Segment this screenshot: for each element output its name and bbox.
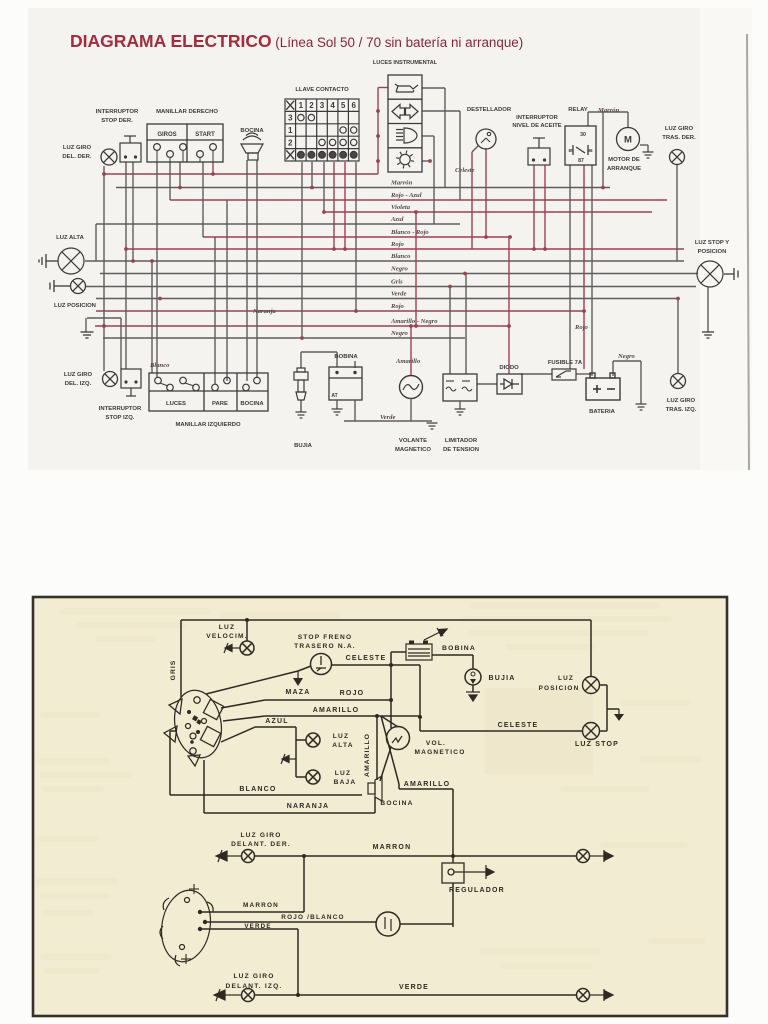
svg-text:Celeste: Celeste (455, 167, 474, 174)
svg-text:BATERIA: BATERIA (589, 409, 615, 415)
connector alta/baja (281, 754, 296, 764)
svg-text:Rojo: Rojo (390, 303, 405, 310)
wire (433, 136, 435, 224)
node (102, 172, 106, 176)
wire (400, 923, 453, 925)
page scan right edge (747, 34, 749, 470)
node (507, 324, 511, 328)
svg-text:DEL. IZQ.: DEL. IZQ. (65, 381, 92, 387)
wire (590, 620, 592, 677)
wire (255, 726, 296, 728)
interruptor STOP IZQ. (121, 369, 141, 396)
svg-text:LUZ GIRO: LUZ GIRO (665, 126, 694, 132)
svg-text:INTERRUPTOR: INTERRUPTOR (96, 109, 139, 115)
svg-text:GIROS: GIROS (157, 132, 176, 138)
svg-text:BOCINA: BOCINA (380, 800, 413, 807)
wire (85, 318, 87, 332)
wire (354, 400, 356, 421)
wire (226, 200, 228, 381)
svg-text:NIVEL DE ACEITE: NIVEL DE ACEITE (512, 123, 561, 129)
wire (204, 812, 375, 814)
node (102, 324, 106, 328)
node (354, 309, 358, 313)
wire to velocim lamp (246, 620, 248, 641)
icon turn arrows (392, 105, 418, 119)
icon oil (395, 84, 418, 92)
svg-text:POSICION: POSICION (698, 249, 727, 255)
svg-text:ROJO: ROJO (340, 690, 365, 697)
wire (600, 684, 608, 686)
svg-text:LUZ ALTA: LUZ ALTA (56, 235, 84, 241)
connector MAZA (297, 671, 299, 678)
svg-text:LUCES: LUCES (166, 401, 186, 407)
wire Azul (96, 223, 460, 225)
node (376, 134, 380, 138)
svg-text:GRIS: GRIS (170, 660, 177, 681)
wire gris down to switch (180, 620, 182, 697)
svg-text:DELANT. DER.: DELANT. DER. (231, 841, 291, 848)
node (150, 259, 154, 263)
svg-text:85: 85 (568, 148, 574, 153)
lamp luz stop y posicion (697, 261, 723, 287)
svg-text:BOBINA: BOBINA (334, 354, 358, 360)
node (414, 210, 418, 214)
svg-text:FUSIBLE 7A: FUSIBLE 7A (548, 360, 583, 366)
svg-text:AMARILLO: AMARILLO (404, 781, 451, 788)
svg-text:CELESTE: CELESTE (498, 722, 539, 729)
ground bobina (332, 409, 343, 415)
wire (607, 708, 619, 710)
lamp luz posicion bottom (583, 677, 600, 694)
svg-text:LUZ GIRO: LUZ GIRO (240, 832, 281, 839)
svg-text:Gris: Gris (391, 279, 403, 286)
svg-text:2: 2 (288, 138, 293, 147)
wire (521, 373, 552, 375)
wire (422, 87, 445, 89)
svg-text:Azul: Azul (390, 216, 404, 223)
svg-text:AMARILLO: AMARILLO (364, 733, 371, 777)
wire (415, 212, 417, 326)
lamp trasera izq (577, 989, 590, 1002)
svg-text:Negro: Negro (617, 353, 636, 360)
svg-text:LUZ POSICION: LUZ POSICION (54, 303, 96, 309)
svg-text:ALTA: ALTA (332, 742, 353, 749)
node (158, 297, 162, 301)
svg-text:1: 1 (299, 101, 304, 110)
wire (221, 727, 255, 742)
wire (533, 165, 535, 249)
svg-text:VERDE: VERDE (399, 984, 429, 991)
wire (344, 162, 346, 249)
wire Verde (344, 420, 432, 422)
svg-text:BOBINA: BOBINA (442, 645, 476, 652)
wire Blanco - Rojo (203, 236, 510, 238)
wire Verde (96, 298, 678, 300)
wire Violeta (324, 211, 652, 213)
svg-text:NARANJA: NARANJA (287, 803, 330, 810)
svg-text:LUZ STOP Y: LUZ STOP Y (695, 240, 729, 246)
svg-text:DEL. DER.: DEL. DER. (62, 154, 91, 160)
ground bateria (636, 404, 647, 410)
svg-text:REGULADOR: REGULADOR (449, 887, 505, 894)
wire (206, 671, 298, 694)
wire (583, 165, 585, 369)
wire Marrón (116, 187, 610, 189)
ground bujia (296, 412, 307, 418)
wire (600, 730, 608, 732)
wire posicion-stop (606, 685, 608, 731)
wire (170, 794, 362, 796)
svg-text:LUZ STOP: LUZ STOP (575, 741, 619, 748)
svg-text:Rojo: Rojo (390, 241, 405, 248)
svg-text:DE TENSION: DE TENSION (443, 447, 479, 453)
wire Gris (85, 286, 696, 288)
lamp luz baja (306, 770, 320, 784)
wire (323, 162, 325, 212)
node (582, 309, 586, 313)
svg-text:AZUL: AZUL (265, 718, 288, 725)
wire (212, 162, 214, 174)
wire (255, 855, 577, 857)
wire (332, 664, 392, 666)
svg-text:Blanco: Blanco (149, 362, 170, 369)
wire (223, 716, 265, 721)
svg-text:LUZ GIRO: LUZ GIRO (63, 145, 92, 151)
svg-text:Blanco: Blanco (390, 253, 411, 260)
wire (265, 715, 420, 717)
svg-text:LUZ GIRO: LUZ GIRO (64, 372, 93, 378)
wire Blanco (85, 260, 684, 262)
wire (202, 928, 298, 930)
wire (376, 716, 378, 780)
connector arrow right (verde) (590, 989, 614, 1001)
wire (410, 326, 412, 375)
svg-text:BAJA: BAJA (334, 779, 357, 786)
ground motor (643, 152, 654, 158)
svg-text:Naranja: Naranja (252, 308, 276, 315)
node (409, 324, 413, 328)
svg-text:M: M (624, 135, 632, 146)
wire (391, 664, 420, 666)
wire (246, 160, 248, 381)
connector velocim (224, 643, 240, 653)
wire (179, 162, 181, 188)
svg-text:5: 5 (341, 101, 346, 110)
wire celeste down (419, 665, 421, 731)
wire Rojo - Azul (170, 199, 667, 201)
svg-text:TRASERO N.A.: TRASERO N.A. (294, 643, 356, 650)
node (376, 109, 380, 113)
lamp luz giro tras der (670, 150, 685, 165)
wire Rojo (126, 248, 684, 250)
node (310, 186, 314, 190)
svg-text:TRAS. DER.: TRAS. DER. (662, 135, 696, 141)
wire (202, 911, 304, 913)
svg-text:TRAS. IZQ.: TRAS. IZQ. (666, 407, 697, 413)
connector bobina arrow (424, 628, 447, 640)
svg-text:INTERRUPTOR: INTERRUPTOR (516, 115, 559, 121)
wire (169, 162, 171, 200)
node (463, 272, 467, 276)
lamp luz giro del der (101, 149, 117, 165)
wire Marron relay (587, 112, 589, 126)
node (322, 210, 326, 214)
node (543, 247, 547, 251)
svg-text:LUZ: LUZ (219, 624, 235, 631)
wire azul down (295, 727, 297, 777)
wire (95, 224, 97, 261)
connector luz alta (39, 254, 58, 268)
wire (202, 162, 204, 237)
bocina (horn, bottom) (368, 776, 382, 801)
node (332, 247, 336, 251)
svg-text:LIMITADOR: LIMITADOR (445, 438, 478, 444)
wire (214, 237, 216, 384)
svg-text:MAGNETICO: MAGNETICO (395, 447, 431, 453)
connector arrow left (der) (216, 850, 241, 862)
ground bujia (bottom) (466, 692, 480, 701)
wire (336, 400, 338, 409)
svg-text:LUZ: LUZ (335, 770, 351, 777)
wire (647, 145, 649, 152)
svg-text:PARE: PARE (212, 401, 228, 407)
wire naranja to bocina (374, 797, 376, 813)
lamp luz stop bottom (583, 723, 600, 740)
svg-text:MARRON: MARRON (243, 902, 279, 909)
wire (569, 165, 571, 369)
svg-text:30: 30 (580, 132, 586, 138)
wire (471, 152, 473, 249)
motor de arranque (617, 128, 640, 151)
node (343, 247, 347, 251)
wire (156, 162, 158, 378)
wire (472, 655, 474, 669)
svg-text:Rojo: Rojo (574, 324, 589, 331)
wire (381, 716, 398, 727)
flywheel magneto (156, 886, 216, 966)
wire Negro (100, 273, 698, 275)
bobina (bottom) (406, 644, 432, 660)
svg-text:87: 87 (578, 158, 584, 164)
node (428, 159, 432, 163)
wire (422, 110, 460, 112)
wire (422, 135, 434, 137)
wire (300, 352, 302, 368)
svg-text:LUCES INSTRUMENTAL: LUCES INSTRUMENTAL (373, 60, 438, 66)
ground left (81, 332, 94, 338)
bujia (spark plug) (294, 368, 308, 412)
svg-text:BLANCO: BLANCO (239, 786, 276, 793)
wire marron to bus (602, 112, 604, 188)
wire CELESTE lower (420, 730, 582, 732)
svg-text:ROJO /BLANCO: ROJO /BLANCO (281, 914, 344, 921)
node (300, 336, 304, 340)
wire (298, 666, 311, 671)
wire (380, 747, 391, 781)
icon headlight (396, 128, 417, 143)
wire (640, 144, 648, 146)
wire (391, 651, 406, 653)
wire Rojo (96, 310, 584, 312)
svg-text:STOP FRENO: STOP FRENO (298, 634, 353, 641)
svg-text:MOTOR DE: MOTOR DE (608, 157, 640, 163)
svg-text:Violeta: Violeta (391, 204, 411, 211)
wire (459, 111, 461, 200)
wire (422, 160, 430, 162)
node (131, 259, 135, 263)
wire bujia ground (472, 685, 474, 692)
svg-text:Amarillo: Amarillo (395, 358, 421, 365)
svg-text:LUZ: LUZ (558, 675, 574, 682)
svg-text:VOLANTE: VOLANTE (399, 438, 427, 444)
svg-text:LLAVE CONTACTO: LLAVE CONTACTO (295, 87, 349, 93)
node (178, 186, 182, 190)
wire (333, 162, 335, 249)
wire (169, 731, 171, 795)
svg-text:ARRANQUE: ARRANQUE (607, 166, 641, 172)
wire (354, 361, 356, 368)
ignition switch cluster (164, 687, 227, 766)
decorative bleed (not labelled further) (36, 602, 706, 974)
ground limitador (455, 409, 466, 415)
node (124, 247, 128, 251)
wire (125, 162, 127, 369)
wire (378, 87, 388, 89)
svg-text:VELOCIM.: VELOCIM. (206, 633, 247, 640)
svg-text:INTERRUPTOR: INTERRUPTOR (99, 406, 142, 412)
wire (544, 165, 546, 249)
svg-text:BUJIA: BUJIA (294, 443, 312, 449)
limitador de tension (443, 374, 477, 401)
svg-text:RELAY: RELAY (568, 107, 587, 113)
wire Negro bateria (613, 360, 641, 362)
connector circle rojo/blanco (376, 912, 400, 936)
wire (296, 739, 306, 741)
wire (296, 776, 306, 778)
wire (627, 112, 629, 127)
wire (381, 716, 399, 784)
svg-text:LUZ GIRO: LUZ GIRO (233, 973, 274, 980)
svg-text:POSICION: POSICION (539, 685, 580, 692)
wire (265, 699, 391, 701)
node (532, 247, 536, 251)
wire regulador down (452, 883, 454, 927)
wire (132, 162, 134, 261)
wire (151, 261, 153, 373)
wire (576, 373, 591, 375)
svg-text:STOP DER.: STOP DER. (101, 118, 133, 124)
wire (465, 274, 467, 375)
svg-text:MARRON: MARRON (373, 844, 412, 851)
wire (301, 351, 337, 353)
connector luz stop (724, 268, 738, 280)
svg-text:4: 4 (330, 101, 335, 110)
wire amarillo to regulador (452, 789, 454, 863)
node (448, 285, 452, 289)
svg-text:Negro: Negro (390, 266, 409, 273)
wire (477, 383, 497, 385)
svg-text:START: START (195, 132, 215, 138)
node (601, 186, 605, 190)
manillar izquierdo (149, 373, 268, 411)
bottom scanned panel (33, 597, 727, 1016)
node (676, 297, 680, 301)
wire (591, 165, 593, 376)
ground verde (427, 423, 438, 429)
wire (676, 165, 678, 261)
svg-text:LUZ: LUZ (333, 733, 349, 740)
svg-text:DIODO: DIODO (499, 365, 519, 371)
lamp luz giro delant der (242, 850, 255, 863)
node (484, 235, 488, 239)
scanned page background (top) (28, 8, 752, 470)
node (211, 172, 215, 176)
icon flasher (396, 151, 414, 169)
wire (255, 994, 577, 996)
wire (640, 361, 642, 404)
wire (303, 856, 305, 912)
connector arrow right (marron) (590, 850, 614, 862)
wire (485, 148, 487, 237)
wire (472, 146, 478, 152)
wire (410, 398, 412, 421)
wire (449, 287, 451, 375)
svg-text:MAZA: MAZA (285, 689, 310, 696)
svg-text:MANILLAR DERECHO: MANILLAR DERECHO (156, 109, 218, 115)
wire (398, 784, 400, 789)
wire (120, 318, 122, 369)
volante magnetico (bottom) (387, 727, 410, 750)
wire (336, 352, 338, 367)
wire (390, 652, 392, 728)
lamp luz alta bottom (306, 733, 320, 747)
wire (588, 111, 628, 113)
svg-text:AT: AT (331, 393, 337, 399)
wire (301, 162, 303, 338)
wire (104, 173, 378, 175)
svg-text:1: 1 (288, 126, 293, 135)
svg-text:Marrón: Marrón (597, 107, 620, 114)
wire (170, 730, 176, 732)
wire (207, 921, 376, 923)
wire Negro (103, 337, 465, 339)
svg-text:MAGNETICO: MAGNETICO (414, 749, 465, 756)
svg-text:DELANT. IZQ.: DELANT. IZQ. (226, 983, 283, 990)
svg-text:LUZ GIRO: LUZ GIRO (667, 398, 696, 404)
wire (432, 654, 473, 656)
svg-text:Verde: Verde (391, 291, 406, 298)
svg-text:3: 3 (320, 101, 325, 110)
lamp luz posicion (71, 279, 86, 294)
svg-text:Marrón: Marrón (390, 180, 413, 187)
wire (459, 401, 461, 409)
svg-text:CELESTE: CELESTE (346, 655, 387, 662)
svg-text:Rojo - Azul: Rojo - Azul (390, 192, 422, 199)
svg-text:Amarillo - Negro: Amarillo - Negro (390, 318, 438, 325)
svg-text:86: 86 (587, 148, 593, 153)
svg-text:3: 3 (288, 114, 293, 123)
wire (508, 237, 510, 374)
node (508, 235, 512, 239)
wire (221, 700, 265, 708)
svg-text:MANILLAR IZQUIERDO: MANILLAR IZQUIERDO (175, 422, 241, 428)
svg-text:BOCINA: BOCINA (240, 401, 264, 407)
node (376, 159, 380, 163)
connector arrow left (izq) (214, 989, 241, 1001)
wire (377, 88, 379, 175)
svg-text:AMARILLO: AMARILLO (313, 707, 360, 714)
node (414, 324, 418, 328)
